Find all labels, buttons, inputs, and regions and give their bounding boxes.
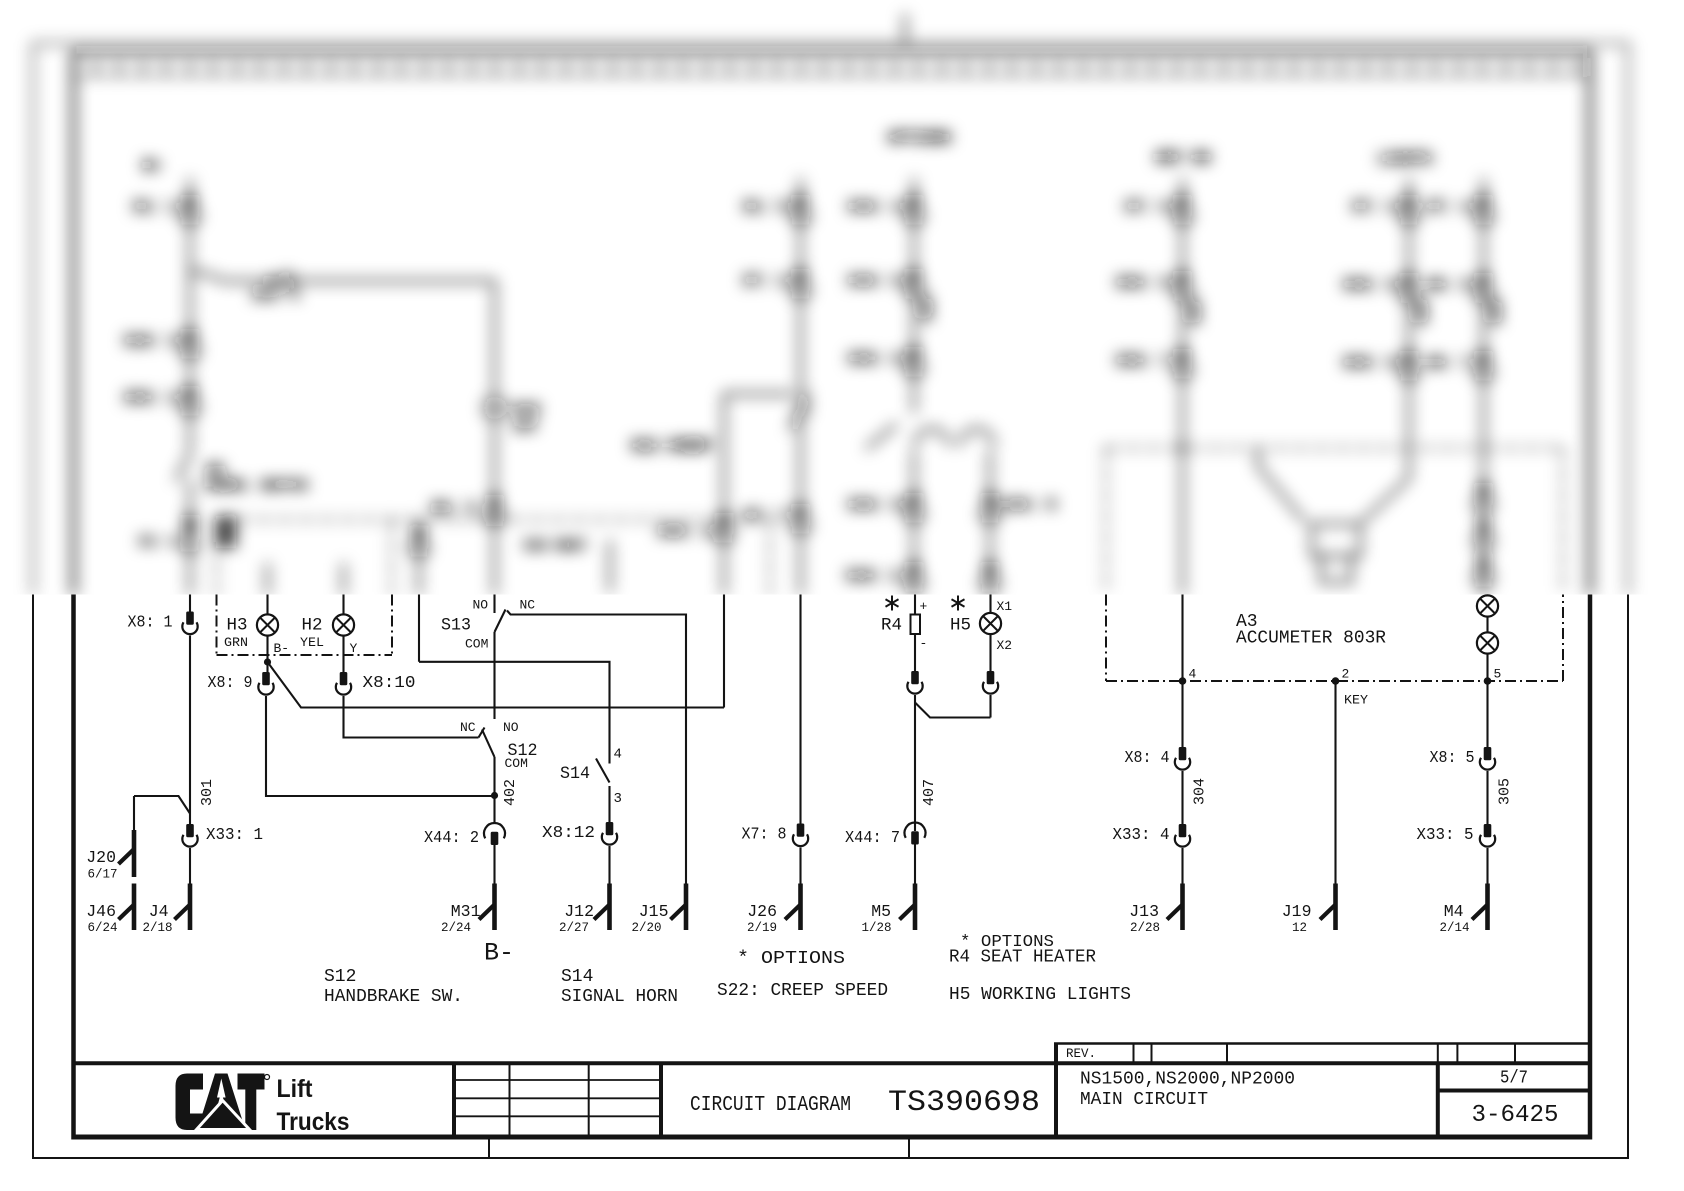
terminal J13 xyxy=(1167,884,1183,931)
wire: lamps to X8:5 xyxy=(1486,655,1488,748)
switch S13 xyxy=(419,595,686,884)
wire: S14 pin3 lead xyxy=(608,786,610,822)
connector X7:3 xyxy=(1400,195,1418,223)
svg-text:6/17: 6/17 xyxy=(87,868,117,882)
wire: S12 NC tick xyxy=(479,728,485,738)
terminal J20 xyxy=(119,830,135,877)
title block: REV strip top line xyxy=(1054,1042,1591,1045)
svg-text:B-: B- xyxy=(274,641,290,656)
terminal J15 xyxy=(671,884,687,931)
svg-text:NO: NO xyxy=(473,598,489,613)
svg-text:X7: 8: X7: 8 xyxy=(742,826,787,845)
svg-text:S12: S12 xyxy=(324,967,356,987)
wire: J13 column through box xyxy=(1181,595,1183,748)
wire: X8:12 to J12 xyxy=(608,846,610,884)
connector X8:12 xyxy=(602,822,617,845)
svg-text:J46: J46 xyxy=(86,902,116,921)
svg-text:J12: J12 xyxy=(564,902,594,921)
title block: REV box left thick vertical xyxy=(1054,1044,1058,1138)
title block: table right thick divider xyxy=(659,1063,663,1137)
connector X10:3 xyxy=(181,329,199,357)
wire: H3 stub into box xyxy=(266,563,269,595)
svg-text:GRN: GRN xyxy=(224,635,248,650)
svg-text:EMERG. SWITCH: EMERG. SWITCH xyxy=(206,478,307,493)
node 402 junction xyxy=(491,792,498,799)
svg-text:TS390698: TS390698 xyxy=(888,1086,1040,1120)
svg-text:Lift: Lift xyxy=(277,1075,314,1103)
svg-text:4: 4 xyxy=(614,747,622,763)
wire: X8:10 down and right to S12 NC xyxy=(344,696,479,738)
node A3 pin 5 xyxy=(1484,677,1492,685)
connector X44:8 xyxy=(905,493,923,521)
svg-text:4: 4 xyxy=(1189,667,1197,682)
svg-text:X33: 6: X33: 6 xyxy=(848,351,902,368)
frame: left inner thick border top part xyxy=(71,53,76,596)
wire: X44:2 to M31 xyxy=(493,845,495,884)
wire: branch diagonal to H5 join xyxy=(915,703,991,718)
ruler strip tick marks xyxy=(96,62,1576,75)
svg-text:CIRCUIT DIAGRAM: CIRCUIT DIAGRAM xyxy=(690,1093,851,1117)
wire: diagonal from X8:9 node to long horizontal xyxy=(268,662,725,708)
wire: X8:4 to X33:4 xyxy=(1181,771,1183,824)
svg-text:X33: 4: X33: 4 xyxy=(1113,826,1170,845)
svg-text:X33: 9: X33: 9 xyxy=(1343,355,1397,372)
connector X44:4 xyxy=(905,195,923,223)
connector lights a xyxy=(1474,483,1492,511)
wire: branch to fuse column with jog xyxy=(190,272,495,281)
terminal M5 xyxy=(900,884,916,931)
svg-text:X8: 9: X8: 9 xyxy=(208,674,253,693)
connector X8:4 xyxy=(1175,747,1190,770)
title block: sheet cell left thick divider xyxy=(1436,1063,1440,1137)
svg-text:X1: 2: X1: 2 xyxy=(139,534,178,549)
svg-text:X44: 1: X44: 1 xyxy=(658,524,712,541)
title block: divider under 5/7 thick xyxy=(1438,1089,1592,1093)
wire stub inside options box xyxy=(609,540,612,592)
connector X7:4 xyxy=(1474,195,1492,223)
switch S13 arm xyxy=(495,610,506,633)
svg-text:5/7: 5/7 xyxy=(1500,1069,1528,1089)
svg-text:X44: 5: X44: 5 xyxy=(1002,497,1056,514)
connector X33:6b xyxy=(1173,271,1191,299)
wire: X8:9 down and right to 402 node xyxy=(266,696,495,796)
wire: H2 lamp to X8:10 xyxy=(342,637,344,673)
connector X33:2 xyxy=(181,386,199,414)
svg-text:H5 WORKING LIGHTS: H5 WORKING LIGHTS xyxy=(949,985,1131,1005)
svg-text:X8: 1: X8: 1 xyxy=(128,614,173,633)
svg-text:X8:12: X8:12 xyxy=(542,824,595,843)
title block: top thick line xyxy=(72,1061,1591,1065)
connector lights b xyxy=(1474,520,1492,548)
svg-text:J13: J13 xyxy=(1129,902,1159,921)
wire: X8:1 to X33:1 long vertical xyxy=(189,636,191,825)
wire: S13 COM elbow to S14 pin 4 xyxy=(419,662,610,764)
frame: right outer thin border xyxy=(1627,595,1629,1160)
connector X44:5 xyxy=(981,493,999,521)
svg-text:LIGHTS: LIGHTS xyxy=(1378,151,1432,168)
terminal J19 xyxy=(1320,884,1336,931)
svg-text:402: 402 xyxy=(502,779,519,806)
A3 accumeter dash-dot box top part xyxy=(1106,448,1563,595)
svg-text:X10: 4: X10: 4 xyxy=(252,288,299,303)
svg-text:X8: 6: X8: 6 xyxy=(1426,277,1471,294)
wire: H5 lamp to connector xyxy=(989,635,991,671)
wire: S12 COM to 402 node xyxy=(493,757,495,822)
star option mark R4 xyxy=(886,596,899,611)
frame: bottom outer thin border xyxy=(32,1157,1629,1159)
lamp working light upper xyxy=(1477,595,1498,616)
svg-text:X7: 7: X7: 7 xyxy=(743,508,788,525)
connector X1:1 xyxy=(181,195,199,223)
svg-text:X44: 6: X44: 6 xyxy=(848,273,902,290)
terminal M31 xyxy=(479,884,495,931)
switch S9 arm xyxy=(176,453,190,481)
svg-text:X1: X1 xyxy=(997,599,1013,614)
frame: right inner thick border top part xyxy=(1588,53,1593,596)
frame: ruler strip base line xyxy=(74,75,1591,77)
svg-text:H5: H5 xyxy=(950,616,971,636)
svg-text:R4 SEAT HEATER: R4 SEAT HEATER xyxy=(949,948,1096,968)
svg-text:B-: B- xyxy=(484,939,514,968)
svg-text:X7: 6: X7: 6 xyxy=(1125,199,1170,216)
svg-text:M31: M31 xyxy=(451,902,481,921)
connector X33:5 xyxy=(1480,824,1495,847)
antenna funnel left stub xyxy=(1258,448,1305,522)
CAT logo: letter C xyxy=(176,1074,204,1131)
connector heater pre xyxy=(905,562,923,590)
terminal J46 xyxy=(119,884,135,931)
funnel base box xyxy=(1321,556,1351,582)
svg-text:+: + xyxy=(920,599,928,614)
wire: J20 branch horizontal and diagonal join xyxy=(134,796,190,814)
wire: H5 connector to join xyxy=(989,695,991,718)
wire: X7:8 to J26 xyxy=(799,848,801,884)
svg-text:HANDBRAKE SW.: HANDBRAKE SW. xyxy=(324,987,463,1007)
connector X8:6 xyxy=(1474,273,1492,301)
frame: top outer thin border xyxy=(32,43,1629,45)
wire: X8:1 column from blur boundary down to connector xyxy=(189,595,191,612)
svg-text:24V: 24V xyxy=(513,419,537,434)
svg-text:X8:10: X8:10 xyxy=(363,674,416,693)
connector R4 lower xyxy=(907,671,922,694)
title block: bottom thick line xyxy=(72,1135,1593,1140)
svg-text:X44: 2: X44: 2 xyxy=(424,829,479,848)
node accumeter top xyxy=(1179,444,1186,451)
lamp H2 xyxy=(333,614,354,635)
svg-text:OPTIONS: OPTIONS xyxy=(888,130,951,147)
svg-text:COM: COM xyxy=(465,637,488,652)
svg-text:3: 3 xyxy=(614,791,622,807)
wire: H3 lamp top stub xyxy=(266,595,268,614)
wire: S13 feed from blur xyxy=(418,595,420,662)
switch S21 arm xyxy=(866,424,897,449)
svg-text:E15: E15 xyxy=(513,402,540,419)
relay block blob xyxy=(216,516,236,548)
svg-text:S9: S9 xyxy=(206,462,224,479)
svg-text:X7: 3: X7: 3 xyxy=(1352,199,1397,216)
wire: S13 NO pin stub xyxy=(493,595,495,614)
svg-text:REV.: REV. xyxy=(1066,1047,1096,1061)
lamp H3 xyxy=(257,614,278,635)
terminal J26 xyxy=(785,884,801,931)
connector X33:9 xyxy=(1400,351,1418,379)
svg-text:X33: 2: X33: 2 xyxy=(124,390,178,407)
resistor R4 xyxy=(911,615,921,635)
svg-text:X7: 4: X7: 4 xyxy=(1426,199,1471,216)
node junction above X8:9 xyxy=(264,658,271,665)
connector X33:4 xyxy=(1175,824,1190,847)
svg-text:SIGNAL HORN: SIGNAL HORN xyxy=(561,987,678,1007)
frame: top inner thick border xyxy=(72,51,1593,55)
connector X7:8 xyxy=(793,824,808,847)
title block: logo cell right thick divider xyxy=(452,1063,456,1137)
svg-text:2: 2 xyxy=(1342,667,1350,682)
wire: fuse column xyxy=(493,281,496,595)
wire: between lamps xyxy=(1486,618,1488,632)
connector X7:6 xyxy=(1173,195,1191,223)
wire: S13 feed stub xyxy=(418,520,421,596)
top centering tick xyxy=(904,14,907,43)
node A3 pin 4 xyxy=(1179,677,1187,685)
wire: H5 top stub xyxy=(989,595,991,613)
connector inline on branch xyxy=(268,273,293,288)
lamp E15 xyxy=(484,397,505,418)
wire: X44:7 to M5 xyxy=(914,845,916,884)
connector X44:6 xyxy=(905,269,923,297)
connector X7:7 xyxy=(791,504,809,532)
funnel body box xyxy=(1312,524,1360,556)
svg-text:H2: H2 xyxy=(302,616,323,636)
svg-text:YEL: YEL xyxy=(300,635,324,650)
connector X33:7 xyxy=(1173,349,1191,377)
wire: H3 lamp to X8:9 xyxy=(266,637,268,673)
svg-text:S14: S14 xyxy=(561,967,593,987)
connector X44:1 xyxy=(715,513,733,541)
svg-text:COM: COM xyxy=(505,756,528,771)
svg-text:J20: J20 xyxy=(86,848,116,867)
svg-text:J15: J15 xyxy=(639,902,669,921)
wire: X33:4 to J13 xyxy=(1181,848,1183,884)
svg-text:2/19: 2/19 xyxy=(747,921,777,935)
svg-text:X33: 6: X33: 6 xyxy=(1116,275,1170,292)
title block: small table verticals xyxy=(510,1063,589,1137)
connector X33:6 xyxy=(905,347,923,375)
wire: accumeter column xyxy=(1181,178,1184,595)
frame: left inner thick border xyxy=(71,595,76,1140)
svg-text:S22: CREEP SPEED: S22: CREEP SPEED xyxy=(717,981,888,1001)
connector on fuse column xyxy=(485,495,503,523)
terminal J4 xyxy=(175,884,191,931)
switch S22 arm xyxy=(790,398,802,430)
svg-text:X44: 7: X44: 7 xyxy=(845,829,900,848)
frame: right outer thin border top part xyxy=(1627,44,1629,596)
connector X33:1 xyxy=(182,824,197,847)
svg-text:J4: J4 xyxy=(149,902,169,921)
A3 accumeter dash-dot box lower part xyxy=(1106,595,1563,682)
svg-text:X2: X2 xyxy=(997,638,1013,653)
connector on seat wire xyxy=(410,527,428,555)
svg-text:X33: 7: X33: 7 xyxy=(1116,353,1170,370)
connector X33:8 xyxy=(1400,273,1418,301)
svg-text:X33: 8: X33: 8 xyxy=(1343,277,1397,294)
svg-text:B+: B+ xyxy=(143,158,161,175)
svg-text:NO: NO xyxy=(503,720,519,735)
wire: meter column xyxy=(1408,178,1411,478)
svg-text:S22 CREEP: S22 CREEP xyxy=(631,438,712,455)
svg-text:J19: J19 xyxy=(1282,902,1312,921)
connector X8:9 xyxy=(258,672,273,695)
switch S14 xyxy=(560,747,622,823)
wire: X33:5 to M4 xyxy=(1486,848,1488,884)
svg-text:* OPTIONS: * OPTIONS xyxy=(737,949,845,969)
terminal M4 xyxy=(1472,884,1488,931)
connector X1:5 xyxy=(791,195,809,223)
svg-text:2/14: 2/14 xyxy=(1439,921,1469,935)
svg-text:3-6425: 3-6425 xyxy=(1472,1102,1559,1129)
title block: bottom centering tick right xyxy=(908,1137,910,1158)
svg-text:X1: 5: X1: 5 xyxy=(743,199,788,216)
CAT logo: pyramid triangle xyxy=(197,1101,250,1130)
svg-text:308: 308 xyxy=(1415,300,1431,325)
dash-dot options box around H3 H2 (sharp lower part) xyxy=(217,595,393,656)
wire: R4 down to X44:7 with H5 branch xyxy=(914,695,916,831)
svg-text:X8: 5: X8: 5 xyxy=(1430,749,1475,768)
connector X8:7 xyxy=(1474,351,1492,379)
title block: small table horizontals xyxy=(454,1080,661,1116)
switch S21 contact bows xyxy=(915,429,994,446)
svg-text:NC: NC xyxy=(460,720,476,735)
node A3 pin 2 xyxy=(1332,677,1340,685)
svg-text:Trucks: Trucks xyxy=(277,1108,350,1136)
wire: X7 column upper xyxy=(799,178,802,595)
lamp H5 xyxy=(980,613,1001,634)
wire: R4 to connector xyxy=(914,634,916,671)
svg-text:2/27: 2/27 xyxy=(559,921,589,935)
svg-text:M4: M4 xyxy=(1444,902,1464,921)
connector X44:7 (flipped) xyxy=(905,823,926,845)
svg-text:1/28: 1/28 xyxy=(861,921,891,935)
wire: creep link horizontal xyxy=(724,393,794,396)
CAT logo: registered mark xyxy=(265,1075,270,1080)
svg-text:2/24: 2/24 xyxy=(441,921,471,935)
frame: right inner thick border xyxy=(1588,595,1593,1140)
svg-text:R4: R4 xyxy=(881,616,902,636)
connector X44:2 (flipped) xyxy=(484,823,505,845)
svg-text:304: 304 xyxy=(1192,778,1209,805)
antenna funnel right arm xyxy=(1362,478,1409,522)
connector X8:10 xyxy=(336,672,351,695)
svg-text:X10: 3: X10: 3 xyxy=(124,333,178,350)
switch S14 arm xyxy=(596,759,610,783)
svg-text:M5: M5 xyxy=(871,902,891,921)
connector lights pre xyxy=(981,562,999,590)
connector X7:2 xyxy=(791,269,809,297)
frame: left outer thin border xyxy=(32,595,34,1160)
lamp working light lower xyxy=(1477,632,1498,653)
wire: R4 top stub xyxy=(914,595,916,615)
wire: S13 NC run to J15 column xyxy=(507,611,686,884)
title block: bottom centering tick left xyxy=(488,1139,490,1158)
wire: KEY lead down to J19 xyxy=(1334,681,1336,884)
svg-text:MAIN CIRCUIT: MAIN CIRCUIT xyxy=(1080,1090,1208,1110)
connector H5 lower xyxy=(983,671,998,694)
terminal J12 xyxy=(594,884,610,931)
CAT logo: letter A white notch xyxy=(217,1079,226,1098)
switch S12 arm xyxy=(482,730,495,758)
svg-text:X8: 3: X8: 3 xyxy=(431,500,476,517)
svg-text:S10 SEAT: S10 SEAT xyxy=(524,538,587,553)
wire: working lights column xyxy=(1482,178,1485,595)
svg-text:X1: 1: X1: 1 xyxy=(133,199,178,216)
svg-text:ACCUMETER 803R: ACCUMETER 803R xyxy=(1236,629,1386,649)
connector X8:5 xyxy=(1480,747,1495,770)
svg-text:5: 5 xyxy=(1494,667,1502,682)
wire: S13 COM lead down to S12 NO xyxy=(493,632,495,719)
svg-text:X44: 4: X44: 4 xyxy=(848,199,902,216)
svg-text:X7: 2: X7: 2 xyxy=(743,273,788,290)
svg-text:406: 406 xyxy=(920,297,936,322)
star option mark H5 xyxy=(952,596,965,611)
svg-text:Y: Y xyxy=(350,641,358,656)
wire: X33:1 to J4 xyxy=(189,848,191,884)
wire: heater column xyxy=(913,178,916,595)
svg-text:2/18: 2/18 xyxy=(142,921,172,935)
svg-text:X33: 1: X33: 1 xyxy=(206,826,263,845)
svg-text:X33: 5: X33: 5 xyxy=(1417,826,1474,845)
switch S12 xyxy=(460,720,538,822)
frame: left outer thin border top part xyxy=(32,44,34,596)
CAT logo: letter T xyxy=(238,1074,265,1131)
wire: X7:8 column from blur xyxy=(799,595,801,824)
svg-text:H3: H3 xyxy=(227,616,248,636)
svg-text:S13: S13 xyxy=(441,616,471,636)
wire: vertical rising from horizontal into blur region xyxy=(723,595,725,708)
svg-text:S14: S14 xyxy=(560,764,590,784)
svg-text:NS1500,NS2000,NP2000: NS1500,NS2000,NP2000 xyxy=(1080,1070,1295,1090)
connector X1:2 big xyxy=(182,515,197,551)
svg-text:-: - xyxy=(920,636,928,651)
svg-text:305: 305 xyxy=(1497,778,1514,805)
wire: X8:5 to X33:5 xyxy=(1486,771,1488,824)
wire: H2 lamp top stub xyxy=(342,595,344,614)
svg-text:J26: J26 xyxy=(747,902,777,921)
svg-text:6/24: 6/24 xyxy=(87,921,117,935)
svg-text:309: 309 xyxy=(1489,300,1505,325)
svg-text:KEY SW: KEY SW xyxy=(1156,150,1210,167)
svg-text:NC: NC xyxy=(520,598,536,613)
svg-text:306: 306 xyxy=(1188,300,1204,325)
CAT logo: letter A xyxy=(197,1074,245,1131)
svg-text:X10: 2: X10: 2 xyxy=(846,568,900,585)
wire: H2 stub into box xyxy=(342,563,345,595)
wire: lights column lower xyxy=(989,450,992,595)
connector lights c xyxy=(1474,557,1492,585)
svg-text:X44: 8: X44: 8 xyxy=(848,497,902,514)
title block: REV strip divider ticks xyxy=(1134,1044,1516,1064)
svg-text:2/20: 2/20 xyxy=(631,921,661,935)
switch S22 contact bumps xyxy=(802,392,808,416)
svg-text:407: 407 xyxy=(921,779,938,806)
dash-dot options box top part xyxy=(217,520,771,596)
svg-text:X8: 7: X8: 7 xyxy=(1426,355,1471,372)
connector X8:1 xyxy=(182,612,197,635)
wire: J20 stub xyxy=(133,796,135,830)
wire: battery column xyxy=(189,178,192,595)
wire: creep column riser xyxy=(723,394,726,595)
svg-text:KEY: KEY xyxy=(1344,693,1368,708)
svg-text:X8: 4: X8: 4 xyxy=(1125,749,1170,768)
svg-text:301: 301 xyxy=(199,779,216,806)
